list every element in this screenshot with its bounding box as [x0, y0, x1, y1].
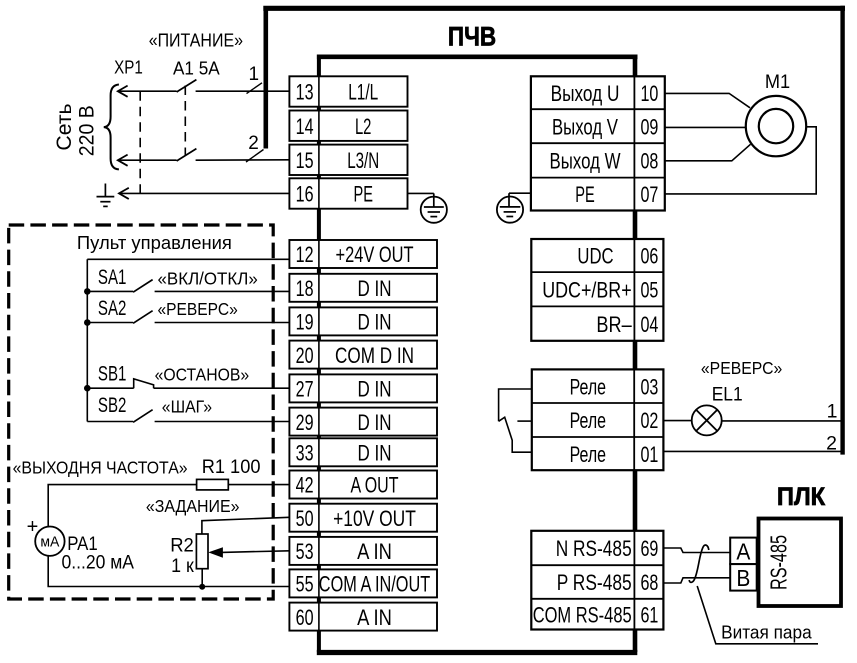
milliammeter PA1	[35, 527, 64, 556]
terminal 55 COM A IN/OUT	[289, 569, 437, 597]
svg-text:R2: R2	[170, 535, 194, 556]
terminal 20 COM D IN	[289, 341, 437, 369]
PLC box	[759, 519, 842, 607]
wire to terminal 12 (+24V OUT)	[87, 258, 289, 260]
svg-text:UDC: UDC	[577, 244, 613, 269]
svg-text:M1: M1	[765, 72, 790, 93]
svg-text:13: 13	[296, 80, 314, 105]
svg-text:60: 60	[296, 605, 314, 630]
wire PE: terminal 07 to motor frame	[665, 127, 816, 194]
twisted pair twist symbol	[689, 545, 709, 582]
svg-text:+10V OUT: +10V OUT	[333, 506, 416, 531]
A1 breaker dashed mechanical link	[184, 86, 186, 156]
svg-text:COM A IN/OUT: COM A IN/OUT	[319, 572, 430, 597]
svg-text:06: 06	[640, 244, 658, 269]
terminal block RS-485 (pins 69-61)	[531, 531, 663, 630]
svg-text:42: 42	[296, 473, 314, 498]
svg-text:09: 09	[640, 114, 658, 139]
svg-text:P RS-485: P RS-485	[557, 570, 632, 595]
svg-text:1: 1	[827, 401, 838, 423]
lamp EL1 symbol	[692, 405, 722, 435]
svg-text:Реле: Реле	[570, 442, 606, 467]
protective earth symbol (circled) left	[421, 197, 447, 223]
junction SB1 on +24V bus	[84, 385, 91, 392]
svg-text:EL1: EL1	[712, 383, 743, 405]
svg-text:Пульт управления: Пульт управления	[77, 233, 232, 253]
svg-text:27: 27	[296, 377, 314, 402]
+24V bus vertical wire	[86, 259, 88, 421]
protective earth symbol (circled) right	[497, 197, 523, 223]
potentiometer R2	[196, 534, 208, 569]
svg-text:N RS-485: N RS-485	[556, 536, 632, 561]
wire P RS-485 (68) to PLC B	[663, 578, 730, 583]
wire terminal 01 to line 2	[663, 450, 841, 452]
wire SA1 to terminal 18	[87, 290, 133, 292]
wire terminal 42 (A OUT) to R1	[228, 484, 289, 486]
terminal 12 +24V OUT	[289, 240, 437, 268]
arrow into XP1 on wire L3/N	[118, 155, 128, 166]
resistor R1	[197, 479, 229, 490]
svg-text:Сеть: Сеть	[53, 103, 76, 150]
svg-text:PE: PE	[353, 182, 373, 207]
svg-text:01: 01	[640, 442, 658, 467]
earth ground symbol (mains PE)	[104, 184, 106, 197]
svg-text:PE: PE	[575, 182, 595, 207]
svg-text:10: 10	[640, 81, 658, 106]
wire number tick 2	[246, 150, 264, 163]
wire V: terminal 09 to motor	[665, 126, 746, 128]
wire L3/N (to terminal 15)	[118, 159, 177, 161]
svg-text:ПЛК: ПЛК	[777, 483, 826, 511]
svg-text:+24V OUT: +24V OUT	[336, 242, 414, 267]
svg-text:50: 50	[296, 506, 314, 531]
svg-text:ПЧВ: ПЧВ	[448, 22, 496, 52]
terminal 27 D IN	[289, 374, 437, 402]
svg-text:53: 53	[296, 539, 314, 564]
wire W: terminal 08 to motor	[665, 144, 751, 161]
svg-text:2: 2	[248, 133, 259, 154]
terminal 50 +10V OUT	[289, 504, 437, 532]
svg-text:220 В: 220 В	[76, 105, 99, 156]
wire SB2 to terminal 29	[87, 421, 133, 423]
svg-text:D IN: D IN	[358, 441, 392, 466]
svg-text:COM RS-485: COM RS-485	[533, 602, 632, 627]
svg-text:BR–: BR–	[596, 312, 632, 337]
terminal 42 A OUT	[289, 471, 437, 499]
ПЧВ enclosure outer left edge (wire 2 entry)	[263, 6, 268, 149]
svg-text:R1 100: R1 100	[202, 457, 261, 478]
terminal block relay (pins 03-01)	[532, 369, 664, 470]
svg-text:«ПИТАНИЕ»: «ПИТАНИЕ»	[149, 31, 243, 51]
terminal 53 A IN	[289, 537, 437, 565]
terminal 16 PE	[289, 178, 407, 208]
wire PE (to terminal 16)	[119, 192, 289, 194]
terminal block DC bus (pins 06-04)	[531, 239, 663, 341]
wire N RS-485 (69) to PLC A	[663, 548, 730, 553]
svg-text:33: 33	[296, 441, 314, 466]
svg-text:A: A	[736, 539, 751, 565]
svg-text:1 к: 1 к	[171, 556, 194, 577]
svg-text:«ВЫХОДНЯ ЧАСТОТА»: «ВЫХОДНЯ ЧАСТОТА»	[13, 457, 188, 477]
terminal 29 D IN	[289, 408, 437, 436]
ПЧВ inner block right rail	[633, 55, 638, 653]
svg-text:Реле: Реле	[570, 374, 606, 399]
switch SA2 blade	[133, 311, 153, 324]
junction R2/common rail	[199, 584, 205, 590]
svg-text:A IN: A IN	[357, 605, 392, 630]
svg-text:A IN: A IN	[357, 539, 392, 564]
svg-text:«ШАГ»: «ШАГ»	[162, 397, 212, 417]
wire SB1 to terminal 27	[87, 387, 133, 389]
svg-text:L3/N: L3/N	[347, 148, 379, 173]
switch SA1 blade	[133, 280, 153, 293]
svg-text:18: 18	[296, 276, 314, 301]
terminal 18 D IN	[289, 274, 437, 302]
ПЧВ inner block top edge	[317, 54, 638, 59]
terminal 13 L1/L	[289, 76, 407, 106]
ПЧВ enclosure outer top edge	[263, 6, 845, 11]
breaker A1 contact blade (lower)	[177, 149, 197, 161]
button SB1 contact	[134, 379, 154, 388]
svg-text:D IN: D IN	[358, 276, 392, 301]
svg-text:2: 2	[826, 432, 837, 454]
breaker A1 contact blade (upper)	[177, 80, 197, 92]
svg-text:69: 69	[640, 536, 658, 561]
svg-text:SB1: SB1	[98, 363, 127, 386]
svg-text:«РЕВЕРС»: «РЕВЕРС»	[158, 299, 239, 319]
terminal block motor output (pins 10-07)	[531, 76, 665, 210]
wire R1 to milliammeter PA1	[48, 485, 196, 527]
svg-text:UDC+/BR+: UDC+/BR+	[542, 277, 632, 302]
svg-text:«ЗАДАНИЕ»: «ЗАДАНИЕ»	[146, 496, 240, 516]
terminal 15 L3/N	[289, 145, 407, 175]
svg-text:16: 16	[296, 182, 314, 207]
svg-text:COM D IN: COM D IN	[335, 343, 414, 368]
svg-text:20: 20	[296, 343, 314, 368]
svg-text:D IN: D IN	[358, 410, 392, 435]
svg-text:Выход V: Выход V	[552, 114, 618, 139]
svg-text:L1/L: L1/L	[348, 80, 378, 105]
svg-text:03: 03	[640, 374, 658, 399]
motor M1 symbol	[746, 96, 806, 156]
junction SA1 on +24V bus	[84, 288, 91, 295]
callout leader line Витая пара	[697, 586, 818, 644]
svg-text:Реле: Реле	[570, 408, 606, 433]
svg-text:02: 02	[640, 408, 658, 433]
svg-text:A1 5A: A1 5A	[173, 58, 220, 79]
R2 wiper wire to terminal 53 (A IN)	[222, 551, 290, 553]
svg-text:61: 61	[640, 602, 658, 627]
svg-text:29: 29	[296, 410, 314, 435]
wire PE terminal 07 to protective earth	[509, 192, 531, 194]
wire terminal 02 to lamp EL1	[663, 420, 691, 422]
svg-text:SB2: SB2	[98, 394, 127, 417]
svg-text:L2: L2	[355, 114, 372, 139]
terminal 60 A IN	[289, 603, 437, 631]
svg-text:68: 68	[640, 570, 658, 595]
svg-text:1: 1	[249, 64, 260, 85]
svg-text:XP1: XP1	[114, 57, 143, 78]
svg-text:D IN: D IN	[358, 377, 392, 402]
R2 bottom to common rail	[201, 569, 203, 587]
wire PA1 to common rail	[48, 556, 289, 587]
wire L1 (to terminal 13)	[118, 90, 177, 92]
svg-text:Витая пара: Витая пара	[721, 622, 812, 643]
relay common stub (terminal 02)	[517, 420, 531, 422]
relay changeover contact (terminals 03-02-01)	[499, 389, 532, 421]
svg-text:04: 04	[640, 312, 658, 337]
terminal 14 L2	[289, 111, 407, 141]
svg-text:мА: мА	[40, 535, 59, 551]
wire terminal 50 (+10V OUT) to R2	[202, 517, 290, 534]
svg-text:Выход U: Выход U	[551, 81, 620, 106]
svg-text:B: B	[736, 565, 750, 591]
wire PE terminal 16 to protective earth	[408, 192, 434, 194]
junction SA2 on +24V bus	[84, 319, 91, 326]
svg-text:05: 05	[640, 277, 658, 302]
svg-text:14: 14	[296, 114, 314, 139]
PLC terminal B	[730, 564, 757, 591]
XP1 connector dashed link	[139, 91, 141, 193]
terminal 33 D IN	[289, 438, 437, 466]
svg-text:07: 07	[640, 182, 658, 207]
svg-text:D IN: D IN	[358, 310, 392, 335]
svg-text:A OUT: A OUT	[351, 473, 399, 498]
svg-text:SA2: SA2	[98, 297, 127, 320]
Пульт управления dashed enclosure	[9, 225, 274, 599]
ПЧВ inner block left rail	[317, 55, 321, 653]
svg-text:«РЕВЕРС»: «РЕВЕРС»	[701, 358, 783, 378]
arrow on wire PE	[119, 188, 129, 199]
svg-text:RS-485: RS-485	[766, 535, 792, 590]
wire lamp EL1 to line 1	[722, 420, 841, 422]
svg-text:19: 19	[296, 310, 314, 335]
R2 wiper arrow	[210, 548, 223, 557]
terminal 19 D IN	[289, 307, 437, 335]
ПЧВ enclosure bottom edge	[317, 650, 638, 655]
wire number tick 1	[247, 83, 263, 94]
svg-text:«ОСТАНОВ»: «ОСТАНОВ»	[155, 365, 250, 385]
PLC terminal A	[730, 538, 757, 565]
svg-text:SA1: SA1	[98, 266, 127, 289]
curly brace for Сеть 220 В	[104, 85, 119, 170]
wire SA2 to terminal 19	[87, 322, 133, 324]
svg-text:«ВКЛ/ОТКЛ»: «ВКЛ/ОТКЛ»	[158, 268, 259, 288]
svg-text:08: 08	[640, 149, 658, 174]
svg-text:0...20 мА: 0...20 мА	[62, 553, 135, 574]
svg-text:Выход W: Выход W	[550, 149, 621, 174]
wire U: terminal 10 to motor	[665, 93, 750, 107]
svg-text:15: 15	[296, 148, 314, 173]
arrow into XP1 on wire L1	[118, 86, 128, 97]
svg-text:55: 55	[296, 572, 314, 597]
button SB2 blade	[133, 410, 153, 423]
svg-text:12: 12	[296, 242, 314, 267]
ПЧВ enclosure right edge	[840, 6, 844, 455]
